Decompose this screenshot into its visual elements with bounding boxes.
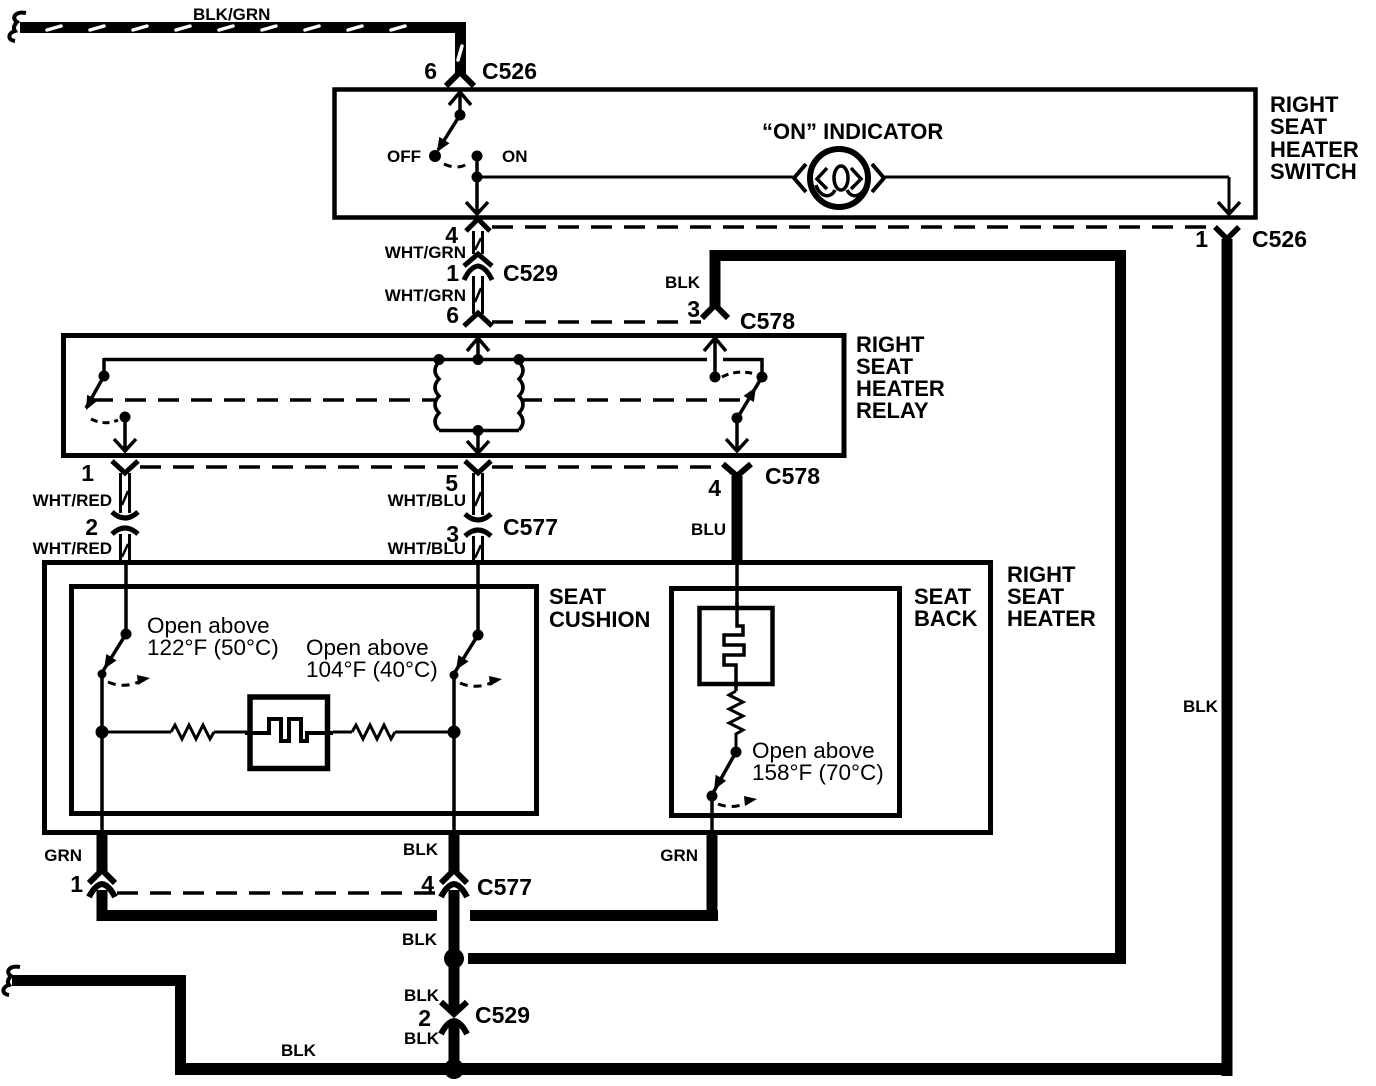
- svg-text:4: 4: [421, 871, 434, 897]
- relay left switch blade (open): [86, 376, 104, 410]
- wire WHT/RED hollow (C578 pin1 to C577 pin2): [121, 473, 130, 513]
- node thermal switch 104F top: [473, 630, 484, 641]
- wire ON contact down to pin 4 (arrow down): [466, 156, 488, 214]
- connector C577 pin 1 (thick inline): [89, 870, 115, 897]
- svg-text:BLK: BLK: [404, 1029, 440, 1048]
- node coil left: [434, 354, 445, 365]
- node relay right switch bottom: [732, 413, 743, 424]
- resistor R-left (cushion): [102, 725, 247, 739]
- node coil top center: [473, 354, 484, 365]
- wire BLK thick ground feed (bottom left): [12, 975, 186, 1075]
- svg-text:C577: C577: [477, 874, 532, 900]
- wire 158F switch down through box edges: [710, 796, 714, 833]
- wire BLK thick (cushion right to C577 pin4): [449, 830, 460, 871]
- box RIGHT SEAT HEATER: [45, 563, 991, 833]
- wire 122F switch to resistor rail: [100, 674, 104, 732]
- svg-text:C578: C578: [740, 308, 795, 334]
- wire continuation symbol 5 (bottom left): [3, 967, 20, 995]
- label RIGHT SEAT HEATER: [1007, 562, 1096, 631]
- wire pin6 entry into switch (arrow up): [449, 92, 471, 114]
- mechanical linkage dashed line: [92, 398, 742, 402]
- svg-text:C526: C526: [1252, 226, 1307, 252]
- wire BLK thick (junction down to C529 pin2): [449, 958, 460, 1010]
- svg-text:1: 1: [1195, 226, 1208, 252]
- dashed connector line C578 pins 6-3: [492, 320, 701, 324]
- wire GRN thick (C577 pin1 to bottom rail): [97, 890, 108, 921]
- node junction bottom bus: [444, 1059, 464, 1079]
- svg-text:GRN: GRN: [44, 846, 82, 865]
- svg-text:4: 4: [708, 475, 721, 501]
- wire BLK from C526 pin1 down right side: [1222, 239, 1233, 1076]
- wire GRN bottom rail (to seat back): [97, 833, 719, 921]
- wire into cushion left: [124, 560, 128, 634]
- connector C578 pin 5 (flare below relay): [465, 461, 491, 473]
- svg-text:3: 3: [687, 296, 700, 322]
- svg-text:1: 1: [81, 460, 94, 486]
- dashed connector line C526 pins 4-1: [492, 225, 1212, 229]
- wire BLK thick (C577 pin4 down to junction): [449, 890, 460, 954]
- node thermal switch 158F bottom: [707, 791, 718, 802]
- svg-text:104°F (40°C): 104°F (40°C): [306, 657, 438, 682]
- contact relay right switch: [757, 372, 768, 383]
- svg-text:BLK: BLK: [403, 840, 439, 859]
- svg-text:BLK: BLK: [665, 273, 701, 292]
- wire relay pin 3 entry (arrow up): [704, 338, 726, 377]
- wire relay top rail: [104, 358, 762, 372]
- connector C529 pin 2 (thick inline): [441, 1002, 467, 1034]
- connector C526 pin 1 (flare): [1215, 227, 1239, 239]
- node thermal switch 122F bottom: [98, 670, 107, 679]
- label SEAT CUSHION: [549, 584, 650, 632]
- wire WHT/BLU hollow (C577 pin3 into heater): [474, 536, 483, 562]
- svg-text:SWITCH: SWITCH: [1270, 159, 1357, 184]
- svg-text:BLU: BLU: [691, 520, 726, 539]
- wire WHT/GRN hollow (switch pin4 to C529): [474, 231, 483, 254]
- thermal switch 158F blade: [713, 752, 736, 793]
- svg-text:C526: C526: [482, 58, 537, 84]
- svg-text:122°F (50°C): 122°F (50°C): [147, 635, 279, 660]
- svg-text:WHT/RED: WHT/RED: [33, 539, 112, 558]
- relay right switch throw dashed arc: [722, 372, 755, 377]
- switch blade S1 (heater switch, shown OFF): [437, 115, 460, 152]
- wire left rail down through box edges: [100, 732, 104, 833]
- node thermal switch 122F top: [121, 629, 132, 640]
- svg-text:158°F (70°C): 158°F (70°C): [752, 760, 884, 785]
- wire 104F switch to rail: [452, 675, 456, 732]
- svg-text:BLK: BLK: [281, 1041, 317, 1060]
- box SEAT BACK: [672, 589, 900, 816]
- box seat back heating element: [700, 608, 773, 684]
- connector C578 pin 1 (flare below relay): [112, 461, 138, 473]
- node thermal switch 158F top: [731, 747, 742, 758]
- connector C577 pin 4 (thick inline): [441, 870, 467, 897]
- wire WHT/RED hollow (C577 pin2 into heater): [121, 534, 130, 562]
- svg-text:BACK: BACK: [914, 606, 978, 631]
- wire relay pin 4 (arrow down): [726, 418, 748, 451]
- relay right switch blade: [738, 377, 762, 417]
- label Open above 122F: [147, 613, 279, 660]
- svg-text:WHT/BLU: WHT/BLU: [388, 539, 466, 558]
- wire WHT/BLU hollow (C578 pin5 to C577 pin3): [474, 473, 483, 515]
- connector C578 pin 6 (flare at relay): [464, 313, 492, 326]
- svg-text:WHT/BLU: WHT/BLU: [388, 491, 466, 510]
- connector C577 pin 3 (inline): [465, 514, 491, 536]
- connector C526 pin 4 (flare below switch box): [466, 219, 490, 231]
- resistor (seat back, vertical zigzag): [729, 691, 743, 749]
- svg-text:RELAY: RELAY: [856, 398, 929, 423]
- wire BLK thick (C529 pin2 to bottom bus): [449, 1022, 460, 1069]
- svg-text:SEAT: SEAT: [1270, 114, 1328, 139]
- wire junction to indicator lamp: [477, 176, 793, 179]
- node resistor rail left: [96, 726, 109, 739]
- svg-text:1: 1: [446, 260, 459, 286]
- thermal switch 158F throw dashed arc with arrow: [718, 796, 757, 807]
- box thermal element (cushion PTC): [250, 697, 328, 769]
- wire relay pin 1 (arrow down): [114, 417, 136, 451]
- svg-text:1: 1: [70, 871, 83, 897]
- switch throw dashed arc: [444, 162, 470, 167]
- svg-text:SEAT: SEAT: [549, 584, 607, 609]
- thermal switch 122F blade: [103, 634, 126, 671]
- node coil right: [514, 354, 525, 365]
- wire right rail down through box edges: [452, 732, 456, 833]
- svg-text:BLK: BLK: [402, 930, 438, 949]
- svg-text:6: 6: [424, 58, 437, 84]
- svg-text:6: 6: [446, 302, 459, 328]
- wire BLK thick loop (C578 pin3 up, right, down to bottom junction): [468, 250, 1126, 964]
- lamp "ON" indicator bulb: [794, 149, 884, 207]
- wire lamp to right side of switch box (arrow down): [885, 177, 1240, 214]
- box RIGHT SEAT HEATER RELAY: [64, 336, 845, 456]
- svg-text:C578: C578: [765, 463, 820, 489]
- dashed connector line C578 pins 1-5: [140, 465, 464, 469]
- label Open above 104F: [306, 635, 438, 682]
- label RIGHT SEAT HEATER SWITCH: [1270, 92, 1359, 184]
- connector C529 pin 1 (inline): [464, 254, 492, 280]
- label SEAT BACK: [914, 584, 978, 631]
- contact OFF: [429, 150, 441, 162]
- wire BLU into seat back: [735, 562, 739, 606]
- wire BLU thick (C578 pin4 into heater): [732, 476, 743, 564]
- label RIGHT SEAT HEATER RELAY: [856, 332, 945, 423]
- relay left switch throw dashed arc: [91, 419, 118, 423]
- dashed connector line C577 pins 1-4: [117, 891, 438, 895]
- dashed connector line C578 pins 5-4: [492, 465, 722, 469]
- node relay left switch top: [99, 371, 110, 382]
- connector C578 pin 3 (flare at end of BLK wire): [702, 305, 728, 318]
- svg-text:CUSHION: CUSHION: [549, 607, 650, 632]
- connector C578 pin 4 (flare, thick BLU): [723, 464, 751, 476]
- node switch common: [455, 110, 466, 121]
- svg-text:BLK: BLK: [1183, 697, 1219, 716]
- wire continuation symbol 5 (top left): [9, 13, 26, 41]
- contact ON: [472, 151, 483, 162]
- resistor R-right (cushion): [333, 725, 454, 739]
- svg-text:C577: C577: [503, 514, 558, 540]
- svg-text:OFF: OFF: [387, 147, 421, 166]
- wire GRN thick (cushion left to C577 pin1): [97, 830, 108, 871]
- node junction BLK splice (to relay loop): [444, 949, 464, 969]
- svg-text:BLK/GRN: BLK/GRN: [193, 5, 270, 24]
- node coil bottom: [473, 425, 484, 436]
- contact relay left switch: [120, 412, 131, 423]
- box SEAT CUSHION: [72, 587, 537, 814]
- connector C526 pin 6 (flare at end of BLK/GRN wire): [446, 72, 474, 86]
- svg-text:“ON” INDICATOR: “ON” INDICATOR: [762, 119, 943, 144]
- thermal switch 104F blade: [455, 635, 478, 672]
- thermal switch 122F throw dashed arc with arrow: [108, 675, 150, 685]
- svg-text:C529: C529: [475, 1002, 530, 1028]
- label Open above 158F: [752, 738, 884, 785]
- wire WHT/GRN hollow (C529 to relay pin 6): [474, 276, 483, 314]
- box RIGHT SEAT HEATER SWITCH: [335, 90, 1256, 218]
- relay coil K1: [435, 362, 523, 431]
- wire BLK bottom bus: [175, 1063, 1233, 1075]
- svg-text:2: 2: [85, 514, 98, 540]
- svg-text:BLK: BLK: [404, 986, 440, 1005]
- svg-text:GRN: GRN: [660, 846, 698, 865]
- wire into cushion right: [476, 560, 480, 635]
- node indicator branch junction: [472, 172, 483, 183]
- wire coil to relay pin 5 (arrow down): [467, 430, 489, 453]
- heating element symbol (square wave): [245, 719, 333, 741]
- thermal switch 104F throw dashed arc with arrow: [460, 676, 502, 686]
- svg-text:C529: C529: [503, 260, 558, 286]
- heating element symbol (vertical meander): [724, 603, 744, 691]
- connector C577 pin 2 (inline): [112, 512, 138, 534]
- svg-text:WHT/RED: WHT/RED: [33, 491, 112, 510]
- node thermal switch 104F bottom: [450, 671, 459, 680]
- wire BLK/GRN thick striped (top feed): [20, 22, 466, 75]
- wire relay pin 6 entry (arrow up): [467, 338, 489, 360]
- svg-text:ON: ON: [502, 147, 528, 166]
- node resistor rail right: [448, 726, 461, 739]
- node relay right switch pivot: [710, 372, 721, 383]
- svg-text:HEATER: HEATER: [1007, 606, 1096, 631]
- svg-text:2: 2: [418, 1005, 431, 1031]
